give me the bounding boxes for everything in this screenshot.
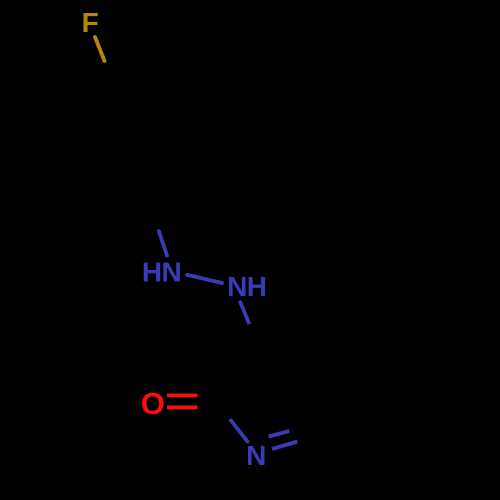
double bond C2=O oxygen halves xyxy=(167,395,198,407)
bond C2-N1 nitrogen half xyxy=(231,421,248,442)
bond N(NH)-C3 carbon half xyxy=(250,326,264,365)
bond N(NH)-C3 nitrogen half xyxy=(240,302,250,325)
double bond N1=C5 nitrogen halves xyxy=(269,431,298,449)
bond F-C1 carbon half xyxy=(105,61,115,84)
double bond N1=C5 carbon halves xyxy=(290,426,320,442)
bond C4a-C3 xyxy=(264,365,330,372)
bond C4(ring)-N(HN) carbon half xyxy=(150,209,159,231)
svg-text:N: N xyxy=(246,440,266,471)
bond C5-C4a xyxy=(319,372,329,437)
bond F-C1 fluorine half xyxy=(95,37,105,61)
svg-text:NH: NH xyxy=(227,271,266,302)
double bond C2=O carbon halves xyxy=(198,395,213,407)
bond C3-C2 xyxy=(215,365,264,401)
bond N-N (hydrazine) xyxy=(187,275,222,283)
svg-text:HN: HN xyxy=(142,257,181,288)
benzene ring (carbon bonds, near-invisible) xyxy=(69,84,196,210)
bond C2-N1 carbon half xyxy=(215,401,231,421)
bond C4(ring)-N(HN) nitrogen half xyxy=(159,231,167,255)
svg-text:F: F xyxy=(82,7,99,38)
svg-text:O: O xyxy=(141,386,165,421)
